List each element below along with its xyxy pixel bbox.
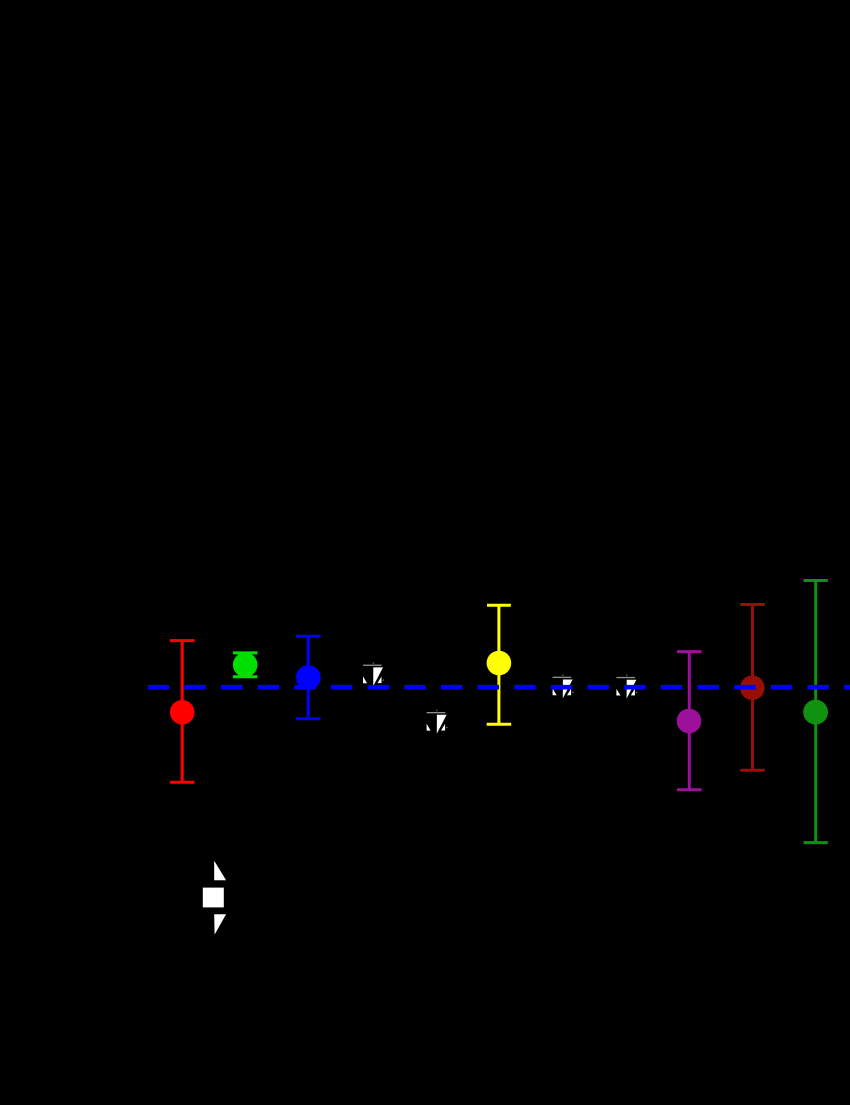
error bar red point 1 xyxy=(170,641,195,783)
error bar yellow point 4 xyxy=(487,605,512,724)
marker glyph G1 xyxy=(363,662,384,686)
marker glyph G4 xyxy=(616,675,637,699)
error bar bright green point 2 xyxy=(233,653,258,677)
error bar dark red point 6 xyxy=(740,605,765,771)
error bar blue point 3 xyxy=(296,636,321,719)
error bar dark green point 7 xyxy=(804,581,828,843)
marker glyph G3 xyxy=(553,674,574,698)
blue dashed reference line (drawn on top) xyxy=(148,685,850,690)
marker glyph G2 xyxy=(427,710,448,734)
white square marker S xyxy=(203,861,226,935)
error bar purple point 5 xyxy=(677,652,702,790)
